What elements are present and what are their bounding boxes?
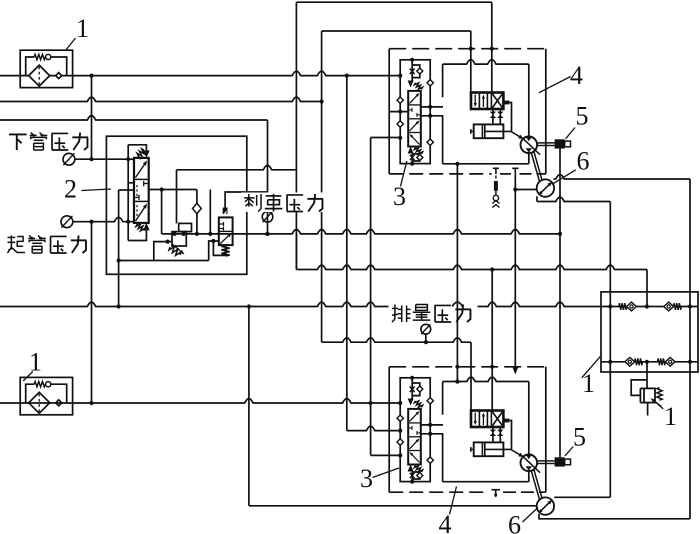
coupling 5 block <box>555 457 565 466</box>
junction dot <box>247 304 251 308</box>
wire bottom long return y=505.8 <box>249 505 537 507</box>
wire x=457.4 (top box to bottom box) <box>456 164 458 382</box>
wire <box>492 427 494 442</box>
wire pilot stub to valve <box>128 182 134 184</box>
wire x=118.6 down to bus3 <box>118 190 120 307</box>
T1 wire <box>495 191 497 195</box>
wire bus1 y=233.9 <box>162 230 560 234</box>
valve V2 arrow cell1 <box>136 165 145 178</box>
junction dot <box>424 340 428 344</box>
spring <box>414 148 422 155</box>
shaft double line <box>538 142 555 144</box>
wire <box>411 60 413 81</box>
wire valve2 right port y=189.5 <box>149 189 197 191</box>
valve V3 body <box>408 91 421 147</box>
reducing valve arrow <box>172 244 181 252</box>
wire work port B <box>421 115 443 117</box>
variable pump circle <box>521 137 538 154</box>
pump box top edge with hops <box>443 60 529 64</box>
valve V2 closed port ticks <box>135 196 139 198</box>
gauge 下管压力 test point <box>63 153 75 165</box>
orifice diamond <box>417 386 423 392</box>
pump box right edge <box>528 382 530 482</box>
control valve divider <box>478 411 480 428</box>
wire return y=403 <box>0 399 400 403</box>
label 3 leader (bottom) <box>373 468 400 478</box>
junction dot <box>455 379 459 383</box>
svg-text:1: 1 <box>76 14 89 43</box>
wire valve2 left mid port y=190 <box>119 189 134 191</box>
wire test line x=267.5 down to bus1 <box>267 120 269 234</box>
wire brake valve drain <box>213 241 225 255</box>
junction dot <box>126 220 130 224</box>
label 1 leader (box1) <box>582 357 600 378</box>
spring <box>414 401 422 408</box>
valve V3 divider <box>408 450 421 452</box>
control valve divider <box>490 93 492 110</box>
valve V2 top spring <box>137 149 144 158</box>
wire bus3 y=306.5 <box>0 302 698 306</box>
dashed enclosure bottom edge <box>389 491 488 493</box>
wire nub down <box>509 103 511 132</box>
wire vertical x=370.6 long <box>370 138 372 456</box>
pilot arrow <box>408 465 414 472</box>
junction dot <box>320 99 324 103</box>
valve V3 divider <box>408 104 421 106</box>
valve V2 divider <box>134 200 149 202</box>
brake valve spring <box>221 246 229 257</box>
junction dot <box>410 162 414 166</box>
wire nub down <box>509 421 511 450</box>
wire box1 to relief <box>646 362 648 389</box>
wire x=321.6 lower (to bus4 corner) <box>321 102 323 343</box>
valve V3 divider <box>408 132 421 134</box>
check pair bowtie <box>490 112 496 115</box>
junction dot <box>490 267 494 271</box>
wire pilot drop x=176.5 <box>176 170 178 224</box>
T1 check circle <box>493 195 498 200</box>
svg-text:3: 3 <box>360 464 373 493</box>
gauge 排量压力 test point <box>421 324 431 334</box>
port diamond <box>397 121 403 127</box>
junction dot <box>126 157 130 161</box>
tank T1 symbol <box>493 167 499 169</box>
wire x=248.9 down <box>248 307 250 506</box>
wire y=111.6 into valve3 <box>389 111 408 113</box>
wire work port A <box>421 106 443 108</box>
wire y=101.5 from left edge <box>0 97 322 101</box>
wire reducing valve drain <box>154 242 172 261</box>
wire vertical x=346.8 long <box>346 76 348 431</box>
piston rod <box>485 448 511 450</box>
label 4 leader (top) <box>539 77 571 93</box>
wire y=455.4 to valve3b <box>371 454 401 456</box>
label 5 leader (bottom) <box>565 447 573 456</box>
relief pilot loop <box>631 380 647 396</box>
junction dot <box>345 74 349 78</box>
wire bus2-to-box1 drop x=647 <box>646 270 648 307</box>
check valve box 1 <box>601 292 698 372</box>
text patch <box>389 303 478 325</box>
wire rect2 left vertical x=321.6 upper <box>321 31 323 102</box>
check pair bowtie <box>497 430 503 433</box>
wire y=260.5 <box>119 260 209 262</box>
label 2 leader <box>82 189 112 191</box>
relief drain stub <box>647 403 649 416</box>
wire to charge pump <box>515 189 537 191</box>
wire pilot rail y=169.8 <box>177 165 297 169</box>
valve block 3 enclosure <box>400 60 430 164</box>
port diamond <box>427 80 433 86</box>
wire corner up to brake valve port <box>209 241 219 261</box>
dashed enclosure top edge <box>389 366 546 368</box>
junction dot <box>211 239 215 243</box>
check valve row2 left <box>625 357 635 366</box>
check/orifice branch <box>412 383 420 396</box>
valve V2 divider <box>134 178 149 180</box>
pilot arrow <box>408 399 414 406</box>
wire <box>499 109 501 124</box>
relief valve body <box>644 388 655 402</box>
junction dot <box>398 136 402 140</box>
junction dot <box>558 232 562 236</box>
wire brake pilot line <box>225 192 267 208</box>
port diamond <box>427 398 433 404</box>
valve V3 divider <box>408 118 421 120</box>
wire vertical x=91.5 lower segment <box>91 222 93 403</box>
junction dot <box>181 232 185 236</box>
case drain arrow into housing <box>513 368 519 375</box>
junction dot <box>398 110 402 114</box>
valve V2 arrow cell3 <box>136 208 145 221</box>
svg-text:6: 6 <box>577 147 590 176</box>
junction dot <box>410 58 414 62</box>
junction dot <box>645 360 649 364</box>
svg-text:5: 5 <box>573 423 586 452</box>
valve V3 divider <box>408 422 421 424</box>
junction dot <box>410 480 414 484</box>
check X <box>410 387 415 393</box>
spring <box>414 83 422 90</box>
check X <box>410 473 415 478</box>
pump box bottom edge <box>443 481 529 483</box>
svg-text:2: 2 <box>64 175 77 204</box>
enclosure 4 right edge <box>545 49 547 174</box>
wire bus4 y=342.2 <box>322 338 471 342</box>
junction dot <box>428 105 432 109</box>
pilot arrow <box>408 81 414 88</box>
reducing valve pilot box <box>179 223 192 231</box>
wire case drain x=515.3 down <box>514 190 516 368</box>
wire <box>499 427 501 442</box>
junction dot <box>172 232 176 236</box>
pump box bottom edge <box>443 163 529 165</box>
pump box left edge <box>442 64 444 97</box>
wire work port A <box>421 424 443 426</box>
wire rect2 top edge (y=31) <box>322 30 471 32</box>
check valve row1 right <box>664 302 674 311</box>
valve V3 divider <box>408 436 421 438</box>
pump box top edge with hops <box>443 377 529 381</box>
check valve row2 right <box>658 358 666 365</box>
gauge 刹车压力 test point <box>262 212 273 223</box>
charge pump 6 circle <box>537 179 554 196</box>
brake valve ticks <box>220 223 224 225</box>
junction dot <box>490 47 494 51</box>
charge pump arrow <box>541 503 549 511</box>
control valve divider <box>490 411 492 428</box>
wire vertical x=91.5 upper segment <box>91 76 93 160</box>
check/orifice branch <box>412 154 420 161</box>
text 起管压力 <box>7 236 15 238</box>
junction dot <box>398 453 402 457</box>
cylinder left stub <box>471 130 474 132</box>
junction dot <box>166 240 170 244</box>
junction dot <box>469 47 473 51</box>
svg-text:5: 5 <box>576 102 589 131</box>
T1 drain dashed <box>495 176 497 181</box>
junction dot <box>398 74 402 78</box>
junction dot <box>117 304 121 308</box>
wire rect1 left vertical x=296 <box>295 2 297 269</box>
wire sq5 link x=560 <box>559 149 561 458</box>
filter 1 (bottom-left) with bypass check <box>20 377 72 414</box>
wire bus4 corner drop x=471 <box>470 342 472 410</box>
label 1 leader (relief) <box>653 399 664 409</box>
valve V3 ticks <box>409 109 412 111</box>
wire <box>411 154 413 164</box>
svg-text:3: 3 <box>393 182 406 211</box>
text 刹车压力 <box>244 197 255 199</box>
junction dot <box>688 360 692 364</box>
dashed pump unit enclosure 4 (bottom) left edge <box>388 367 390 492</box>
wire x=457.4 over text <box>456 300 458 325</box>
svg-text:6: 6 <box>508 511 521 534</box>
wire <box>411 378 413 399</box>
junction dot <box>160 187 164 191</box>
control valve divider <box>478 93 480 110</box>
wire bus2 y=269.5 <box>295 234 297 270</box>
port diamond <box>397 97 403 103</box>
label 5 leader (top) <box>566 128 575 139</box>
spring <box>414 466 422 473</box>
junction dot <box>428 423 432 427</box>
valve block 3 enclosure <box>400 378 430 482</box>
wire charge pump 6b right outlet <box>554 496 610 498</box>
wire gauge stub <box>425 334 427 342</box>
junction dot <box>608 304 612 308</box>
wire check branch x=196.9 <box>196 190 198 234</box>
wire x=492.2 bus2 to bottom valve <box>491 270 493 411</box>
label 6 leader (top) <box>552 170 576 185</box>
wire y=430.6 to valve3b <box>346 430 348 432</box>
swashplate tilt arrow <box>511 449 520 454</box>
T1 damper rect <box>494 181 498 191</box>
port diamond <box>397 439 403 445</box>
valve V3 ticks <box>409 427 412 429</box>
relief valve arrow <box>654 401 661 407</box>
servo cylinder body <box>474 124 504 138</box>
piston <box>481 124 483 138</box>
orifice diamond <box>417 473 423 479</box>
check pair bowtie <box>497 112 503 115</box>
junction dot <box>645 304 649 308</box>
port nub <box>503 419 509 423</box>
wire V2 bottom pilot loop <box>128 230 146 240</box>
variable pump circle <box>521 455 538 472</box>
swashplate tilt arrow <box>511 131 520 136</box>
junction dot <box>490 365 494 369</box>
junction dot <box>208 232 212 236</box>
wire rect1 right drop x=491.8 to valve <box>491 2 493 92</box>
check X <box>410 155 415 160</box>
svg-text:1: 1 <box>582 369 595 398</box>
wire pilot rail x=128.2 <box>127 145 129 241</box>
valve block 2 enclosure <box>106 136 246 274</box>
control valve bars <box>474 95 476 104</box>
piston rod <box>485 130 511 132</box>
wire rect2 right drop x=470.8 to valve <box>470 31 472 93</box>
pump box right edge <box>528 64 530 164</box>
pump control valve body <box>471 93 503 110</box>
wire V2 top pilot loop <box>128 145 146 151</box>
valve V3 arrows <box>410 96 417 104</box>
valve V2 bottom spring <box>136 224 145 231</box>
junction dot <box>265 232 269 236</box>
wire charge pump 6b drain <box>539 514 690 519</box>
brake valve body <box>219 217 233 245</box>
control valve X <box>491 93 503 110</box>
charge pump 6 circle <box>537 497 554 514</box>
brake valve divider <box>219 230 233 232</box>
junction dot <box>117 258 121 262</box>
control valve X <box>491 411 503 428</box>
check X <box>410 69 415 75</box>
junction dot <box>455 365 459 369</box>
pump port triangles <box>526 455 532 460</box>
control valve divider <box>486 411 488 428</box>
brake valve solenoid <box>223 208 228 215</box>
label 1 leader (bottom filter) <box>23 372 33 381</box>
relief valve spring <box>657 388 662 401</box>
junction dot <box>369 401 373 405</box>
text 排量压力 <box>392 307 398 309</box>
junction dot <box>398 401 402 405</box>
junction dot <box>455 379 459 383</box>
junction dot <box>455 162 459 166</box>
wire x=610.3 down <box>609 202 611 498</box>
pump box left edge <box>442 382 444 415</box>
label 1 leader (top filter) <box>66 38 76 51</box>
valve V2 top pilot arrow <box>143 150 150 158</box>
tank T2 symbol <box>512 167 518 169</box>
reducing valve body <box>172 232 186 246</box>
gauge 起管压力 test point <box>61 216 73 228</box>
valve V2 pilot dashes <box>136 185 138 196</box>
svg-text:4: 4 <box>439 510 452 534</box>
T1 chevron <box>492 201 499 204</box>
pilot arrow <box>408 147 414 154</box>
wire bus3 hop at 457.4 (over text) <box>452 302 462 306</box>
servo cylinder body <box>474 442 504 456</box>
wire row2 <box>601 361 698 363</box>
dashed enclosure 4 top edge <box>389 48 546 50</box>
wire <box>411 472 413 482</box>
junction dot <box>195 232 199 236</box>
junction dot <box>398 429 402 433</box>
tank T symbol (bottom) <box>492 489 501 491</box>
charge pump arrow <box>541 185 549 193</box>
check valve row1 left <box>619 303 627 310</box>
wire P-line y=75.6 filter to valve3 <box>0 71 400 75</box>
svg-text:1: 1 <box>29 348 42 377</box>
valve V3 arrows <box>410 414 417 422</box>
check pair bowtie <box>490 430 496 433</box>
wire gauge2 to valve2 y=221.7 <box>73 217 134 221</box>
reducing valve spring <box>169 247 181 256</box>
shaft diagonal double line <box>531 471 539 501</box>
text 下管压力 <box>9 133 27 135</box>
orifice diamond <box>417 68 423 74</box>
wire T2 down to charge pump line <box>514 174 516 189</box>
check/orifice branch <box>412 65 420 78</box>
dashed pump unit enclosure 4 (top) left edge <box>388 49 390 174</box>
wire work port B <box>421 433 443 435</box>
shaft double line <box>538 460 555 462</box>
wire rail x=161.6 down <box>161 190 163 234</box>
piston <box>481 442 483 456</box>
wire y=120 from left edge to corner <box>0 116 268 120</box>
orifice diamond <box>417 155 423 161</box>
control valve bars <box>474 413 476 422</box>
junction dot <box>89 401 93 405</box>
coupling 5 block <box>555 139 565 148</box>
junction dot <box>688 304 692 308</box>
junction dot <box>89 74 93 78</box>
wire charge pump outlet <box>536 196 538 201</box>
wire return y=179 <box>553 175 690 179</box>
label 3 leader (top) <box>401 161 407 187</box>
wire <box>492 109 494 124</box>
wire gauge1 to valve2 y=159.2 <box>75 158 134 160</box>
svg-text:1: 1 <box>664 402 677 431</box>
wire y=137.5 port to x=370.6 <box>371 137 401 139</box>
port diamond <box>397 415 403 421</box>
cylinder left stub <box>471 448 474 450</box>
directional valve V2 body <box>134 158 149 223</box>
check/orifice branch <box>412 472 420 479</box>
pump port triangles <box>526 137 532 142</box>
port diamond <box>427 457 433 463</box>
port nub <box>503 101 509 105</box>
shaft diagonal double line <box>531 153 539 183</box>
junction dot <box>608 360 612 364</box>
control valve divider <box>486 93 488 110</box>
svg-text:4: 4 <box>570 61 583 90</box>
valve V2 bottom pilot arrow <box>143 223 150 231</box>
port diamond <box>427 139 433 145</box>
label 6 leader (bottom) <box>523 508 539 523</box>
junction dot <box>89 220 93 224</box>
wire rect1 top edge (y=2) <box>296 1 491 3</box>
wire return right vertical x=690 <box>689 179 691 519</box>
dashed enclosure 4 bottom edge <box>389 173 491 175</box>
enclosure right edge (bottom) <box>545 367 547 492</box>
junction dot <box>89 157 93 161</box>
wire x=210.3 <box>209 190 211 234</box>
junction dot <box>265 232 269 236</box>
junction dot <box>410 376 414 380</box>
